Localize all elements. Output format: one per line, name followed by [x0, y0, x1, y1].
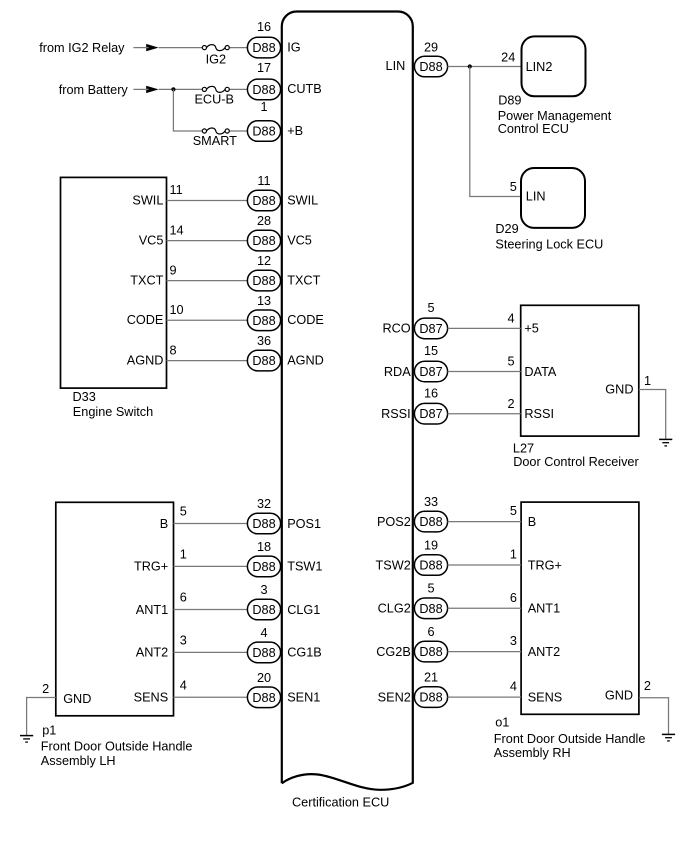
wire IG2 feed — [159, 47, 248, 49]
svg-text:AGND: AGND — [127, 353, 164, 367]
svg-text:5: 5 — [507, 355, 514, 369]
svg-text:17: 17 — [257, 61, 271, 75]
svg-text:D29: D29 — [495, 222, 518, 236]
svg-text:18: 18 — [257, 540, 271, 554]
ground LH handle — [20, 736, 33, 743]
wire LH handle ANT2 — [174, 651, 248, 653]
fuse ECU-B — [202, 86, 229, 92]
svg-text:TRG+: TRG+ — [528, 558, 562, 572]
wire LH handle TRG+ — [174, 565, 248, 567]
svg-text:ECU-B: ECU-B — [194, 93, 233, 107]
svg-text:12: 12 — [257, 254, 271, 268]
svg-text:B: B — [160, 517, 168, 531]
wire CG2B to RH handle — [448, 651, 521, 653]
wire SEN2 to RH handle — [448, 696, 521, 698]
svg-text:5: 5 — [510, 180, 517, 194]
svg-text:1: 1 — [510, 548, 517, 562]
svg-text:20: 20 — [257, 671, 271, 685]
arrow IG2 feed — [146, 44, 158, 51]
svg-text:4: 4 — [507, 312, 514, 326]
ground door control receiver — [659, 439, 672, 446]
svg-text:15: 15 — [424, 344, 438, 358]
connector D88 pin 13 — [247, 310, 280, 331]
svg-text:3: 3 — [260, 583, 267, 597]
svg-text:Front Door Outside Handle: Front Door Outside Handle — [41, 739, 193, 753]
svg-text:AGND: AGND — [287, 353, 324, 367]
svg-text:1: 1 — [180, 547, 187, 561]
svg-text:D88: D88 — [419, 559, 442, 573]
svg-text:11: 11 — [170, 183, 183, 197]
fuse IG2 — [202, 45, 229, 51]
svg-text:CODE: CODE — [127, 313, 164, 327]
wire LH handle SENS — [174, 696, 248, 698]
svg-text:4: 4 — [510, 680, 517, 694]
svg-text:DATA: DATA — [524, 365, 556, 379]
svg-text:CLG2: CLG2 — [378, 602, 411, 616]
svg-text:D33: D33 — [73, 390, 96, 404]
svg-text:SWIL: SWIL — [287, 193, 318, 207]
svg-text:CUTB: CUTB — [287, 82, 322, 96]
svg-text:14: 14 — [170, 223, 184, 237]
svg-text:D88: D88 — [252, 41, 275, 55]
svg-text:D88: D88 — [419, 602, 442, 616]
wire engine switch VC5 — [167, 240, 248, 242]
connector D88 pin 5 (CLG2) — [414, 598, 447, 619]
svg-text:D88: D88 — [252, 274, 275, 288]
svg-text:CLG1: CLG1 — [287, 603, 320, 617]
svg-text:CODE: CODE — [287, 313, 324, 327]
svg-text:16: 16 — [424, 386, 438, 400]
svg-text:1: 1 — [260, 100, 267, 114]
wire battery branch to SMART — [173, 89, 247, 131]
svg-text:13: 13 — [257, 294, 271, 308]
svg-text:19: 19 — [424, 538, 438, 552]
svg-text:28: 28 — [257, 214, 271, 228]
svg-text:3: 3 — [510, 634, 517, 648]
fuse SMART — [202, 128, 229, 134]
junction dot LIN — [468, 64, 472, 68]
wire receiver GND — [639, 390, 666, 439]
wire CLG2 to RH handle — [448, 607, 521, 609]
svg-text:p1: p1 — [42, 723, 56, 737]
svg-text:24: 24 — [501, 50, 515, 64]
connector D88 pin 3 — [247, 599, 280, 620]
svg-text:LIN: LIN — [526, 189, 546, 203]
wire RDA to receiver — [448, 371, 521, 373]
svg-text:VC5: VC5 — [287, 233, 312, 247]
connector D88 pin 11 — [247, 190, 280, 211]
svg-text:Steering Lock ECU: Steering Lock ECU — [495, 238, 603, 252]
svg-text:D88: D88 — [252, 194, 275, 208]
svg-text:D87: D87 — [419, 365, 442, 379]
svg-text:D88: D88 — [419, 60, 442, 74]
svg-text:ANT1: ANT1 — [528, 602, 560, 616]
svg-text:L27: L27 — [513, 441, 534, 455]
svg-text:6: 6 — [180, 591, 187, 605]
svg-text:Assembly LH: Assembly LH — [41, 754, 116, 768]
svg-text:D88: D88 — [252, 517, 275, 531]
svg-text:SEN2: SEN2 — [378, 690, 411, 704]
svg-text:+B: +B — [287, 124, 303, 138]
svg-text:+5: +5 — [524, 322, 538, 336]
svg-text:D88: D88 — [252, 234, 275, 248]
svg-text:TXCT: TXCT — [287, 273, 320, 287]
wire LH handle ANT1 — [174, 609, 248, 611]
wire RH handle GND — [639, 698, 669, 734]
front door outside handle RH box — [521, 502, 639, 714]
svg-text:D88: D88 — [419, 515, 442, 529]
svg-text:RDA: RDA — [384, 365, 411, 379]
svg-text:CG1B: CG1B — [287, 646, 322, 660]
svg-text:SENS: SENS — [134, 691, 169, 705]
wire LH handle GND — [27, 698, 56, 736]
wire LIN branch to steering lock — [470, 67, 521, 197]
svg-text:Engine Switch: Engine Switch — [73, 405, 153, 419]
svg-text:D88: D88 — [252, 125, 275, 139]
connector D88 pin 29 — [414, 56, 447, 77]
svg-text:D88: D88 — [252, 691, 275, 705]
wire engine switch AGND — [167, 360, 248, 362]
svg-text:ANT1: ANT1 — [136, 603, 168, 617]
svg-text:36: 36 — [257, 334, 271, 348]
svg-text:Front Door Outside Handle: Front Door Outside Handle — [494, 732, 646, 746]
connector D88 pin 33 (POS2) — [414, 511, 447, 532]
wire RCO to receiver — [448, 327, 521, 329]
svg-text:Assembly RH: Assembly RH — [494, 746, 571, 760]
svg-text:Control ECU: Control ECU — [498, 122, 569, 136]
svg-text:1: 1 — [644, 374, 651, 388]
wire TSW2 to RH handle — [448, 564, 521, 566]
svg-text:D88: D88 — [252, 646, 275, 660]
svg-text:D88: D88 — [419, 691, 442, 705]
svg-text:2: 2 — [507, 397, 514, 411]
svg-text:21: 21 — [424, 670, 438, 684]
connector D88 pin 21 (SEN2) — [414, 687, 447, 708]
svg-text:ANT2: ANT2 — [528, 645, 560, 659]
connector D88 pin 12 — [247, 270, 280, 291]
junction dot battery branch — [171, 87, 175, 91]
connector D88 pin 20 — [247, 687, 280, 708]
svg-text:SWIL: SWIL — [132, 193, 163, 207]
wire engine switch CODE — [167, 319, 248, 321]
svg-text:VC5: VC5 — [139, 233, 164, 247]
connector D88 pin 28 — [247, 230, 280, 251]
svg-text:3: 3 — [180, 633, 187, 647]
connector D87 pin 15 — [414, 361, 447, 382]
svg-text:POS2: POS2 — [377, 515, 411, 529]
svg-text:IG: IG — [287, 40, 300, 54]
svg-text:TSW2: TSW2 — [376, 558, 411, 572]
svg-text:IG2: IG2 — [206, 52, 226, 66]
arrow Battery feed — [146, 86, 158, 93]
connector D88 pin 19 (TSW2) — [414, 555, 447, 576]
svg-text:29: 29 — [424, 41, 438, 55]
svg-text:RSSI: RSSI — [381, 407, 411, 421]
svg-text:LIN2: LIN2 — [526, 60, 553, 74]
connector D87 pin 5 — [414, 318, 447, 339]
wire LH handle B — [174, 523, 248, 525]
svg-text:GND: GND — [605, 688, 633, 702]
svg-text:5: 5 — [180, 505, 187, 519]
connector D88 pin 4 — [247, 642, 280, 663]
wire POS2 to RH handle — [448, 521, 521, 523]
svg-text:TXCT: TXCT — [130, 273, 163, 287]
Certification ECU body outline — [282, 11, 413, 789]
svg-text:D87: D87 — [419, 407, 442, 421]
svg-text:B: B — [528, 515, 536, 529]
connector D88 pin 16 — [247, 37, 280, 58]
svg-text:SEN1: SEN1 — [287, 691, 320, 705]
svg-text:16: 16 — [257, 20, 271, 34]
ground RH handle — [662, 734, 675, 741]
svg-text:5: 5 — [427, 582, 434, 596]
svg-text:POS1: POS1 — [287, 517, 321, 531]
connector D88 pin 17 — [247, 79, 280, 100]
svg-text:CG2B: CG2B — [376, 645, 411, 659]
svg-text:D88: D88 — [252, 603, 275, 617]
svg-text:2: 2 — [644, 679, 651, 693]
svg-text:D88: D88 — [252, 83, 275, 97]
svg-text:4: 4 — [260, 626, 267, 640]
svg-text:8: 8 — [170, 343, 177, 357]
svg-text:LIN: LIN — [386, 59, 406, 73]
connector D88 pin 6 (CG2B) — [414, 641, 447, 662]
svg-text:D88: D88 — [419, 645, 442, 659]
wire RSSI to receiver — [448, 413, 521, 415]
svg-text:TSW1: TSW1 — [287, 560, 322, 574]
svg-text:D89: D89 — [498, 94, 521, 108]
svg-text:6: 6 — [427, 625, 434, 639]
svg-text:5: 5 — [510, 504, 517, 518]
wire engine switch SWIL — [167, 200, 248, 202]
svg-text:Power Management: Power Management — [498, 109, 612, 123]
svg-text:ANT2: ANT2 — [136, 646, 168, 660]
svg-text:D88: D88 — [252, 314, 275, 328]
connector D88 pin 32 — [247, 513, 280, 534]
svg-text:SMART: SMART — [193, 134, 237, 148]
svg-text:RSSI: RSSI — [524, 407, 554, 421]
svg-text:D87: D87 — [419, 322, 442, 336]
svg-text:10: 10 — [170, 303, 184, 317]
svg-text:SENS: SENS — [528, 690, 563, 704]
svg-text:GND: GND — [63, 692, 91, 706]
wire engine switch TXCT — [167, 280, 248, 282]
svg-text:11: 11 — [257, 174, 270, 188]
steering lock ECU box — [521, 168, 585, 228]
power management control ECU box — [522, 36, 586, 96]
connector D87 pin 16 — [414, 403, 447, 424]
svg-text:32: 32 — [257, 497, 271, 511]
connector D88 pin 36 — [247, 350, 280, 371]
svg-text:6: 6 — [510, 591, 517, 605]
svg-text:RCO: RCO — [382, 322, 410, 336]
connector D88 pin 1 — [247, 121, 280, 142]
front door outside handle LH box — [56, 502, 174, 716]
door control receiver L27 box — [521, 305, 639, 436]
svg-text:D88: D88 — [252, 560, 275, 574]
svg-text:GND: GND — [605, 383, 633, 397]
svg-text:TRG+: TRG+ — [134, 560, 168, 574]
svg-text:D88: D88 — [252, 354, 275, 368]
svg-text:9: 9 — [170, 263, 177, 277]
wire Battery feed — [159, 88, 248, 90]
svg-text:from IG2 Relay: from IG2 Relay — [39, 41, 125, 55]
wire LIN to LIN2 — [448, 66, 522, 68]
svg-text:Certification ECU: Certification ECU — [292, 796, 389, 810]
svg-text:4: 4 — [180, 678, 187, 692]
svg-text:from Battery: from Battery — [59, 83, 129, 97]
connector D88 pin 18 — [247, 556, 280, 577]
engine switch D33 box — [61, 177, 167, 388]
svg-text:5: 5 — [427, 301, 434, 315]
svg-text:33: 33 — [424, 495, 438, 509]
svg-text:Door Control Receiver: Door Control Receiver — [513, 455, 639, 469]
svg-text:2: 2 — [42, 682, 49, 696]
svg-text:o1: o1 — [495, 715, 509, 729]
